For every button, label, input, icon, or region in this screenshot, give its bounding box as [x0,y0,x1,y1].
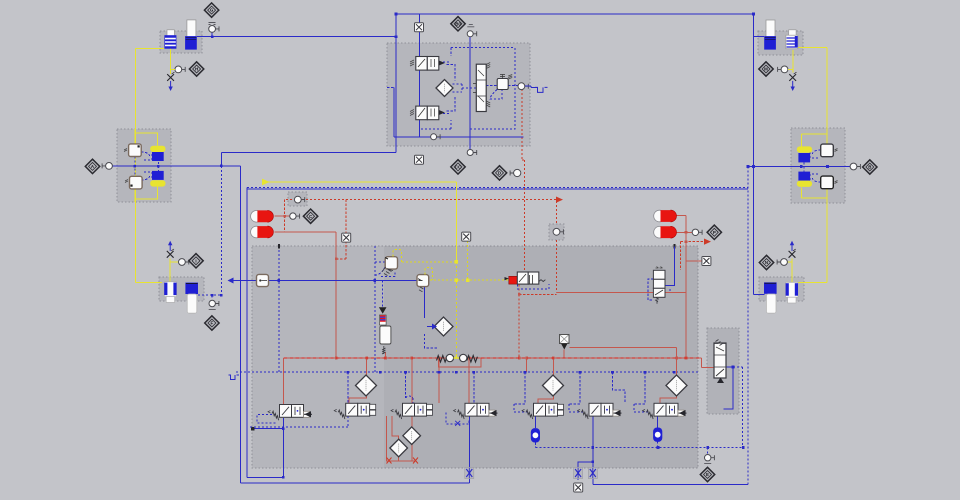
wire yellow vent riser P3 [169,259,171,283]
svg-text:N: N [765,260,768,265]
svg-text:P: P [713,230,716,235]
ball valve below V4 [531,428,540,442]
gauge D [510,169,521,176]
tick manifold top [278,244,280,249]
wire reg2 down [424,287,426,318]
dryer B1 [797,146,812,162]
regulator R2 [417,275,429,292]
junction [685,240,688,243]
gauge accR [692,229,702,235]
wire red d3 to V6 [660,393,677,403]
wire yellow center drop [455,182,457,262]
connector diamond I [189,254,203,268]
connector diamond B [863,160,877,174]
accumulator L2 [251,226,274,238]
wire P4 valve2 links [439,96,455,113]
wire V1 pilot loop [250,416,348,427]
junction [438,357,441,360]
wire V3 out [468,416,470,469]
wire long pilot bus upper [247,187,748,189]
svg-text:G: G [210,8,214,13]
wire red xbox branch dashed [336,200,346,259]
valve P4 bottom [410,106,445,120]
svg-text:I: I [195,258,196,263]
directional valve V2 [391,403,433,419]
regulator R2 yellow curl [425,268,433,281]
vent bottom-left [167,241,174,258]
svg-text:B0: B0 [455,21,461,26]
shuttle white diamond center [434,317,453,336]
junction [732,366,735,369]
wire inner left drop [246,188,248,478]
wire riser x396 [395,14,397,153]
check unit bypass [439,358,481,367]
wire reg1 left dashed [375,246,395,372]
junction [518,357,521,360]
wire inner bottom [247,476,283,478]
wire red accL riser dashed [284,200,286,232]
wire red v2 down [399,416,412,461]
svg-text:H: H [195,67,198,72]
gauge top-left [209,26,219,33]
filter right top [560,335,570,350]
vent bottom-right [789,241,796,258]
wire red solenoid feed dashed [522,89,525,272]
accumulator R2 [654,226,677,238]
junction [455,260,459,264]
regulator R1 [382,257,398,276]
wire P4 gauge link [525,86,538,87]
junction [826,165,829,168]
wire yellow center drop2 dashed [455,262,457,356]
group panel P2 unit A [117,129,171,202]
wire P4 below to CC [469,146,471,149]
junction [395,35,398,38]
wire manifold inner dashed [278,246,280,372]
wire red right pilot dashed [681,242,704,270]
cylinder receiver P1 right [185,20,197,50]
valve P4 top [410,57,445,71]
accumulator L1 [251,210,274,222]
wire red P10 link [702,358,714,367]
connector diamond B0 [451,17,465,31]
connector diamond J [759,62,773,76]
junction [525,357,528,360]
shuttle diamond P4 [436,80,453,97]
junction [675,357,678,360]
relief valve small [0,0,1,1]
wire V0 out [282,418,284,477]
right valve stack [653,267,665,304]
wire P4 dashed box [420,48,515,129]
wire yellow right vent drop [792,50,794,73]
regulator R1 yellow curl [393,250,402,262]
wire main top loop [396,13,754,15]
directional valve V4 [522,403,564,419]
connector diamond A [85,159,99,173]
wire red solenoid out dashed [519,285,556,359]
wire drain stub [211,295,213,299]
wire V5 pilot [569,372,585,412]
tank bracket P4 [535,87,548,92]
wire P4 shuttle links [453,84,477,92]
wire lubricator drop [382,281,384,308]
sequence valve P10 [714,340,727,384]
wire red v3 drop [468,358,470,403]
junction [592,446,595,449]
wire into P7 square [754,293,765,295]
lubricator [379,307,391,354]
plug cap V0 branch [251,427,255,431]
junction [468,357,471,360]
wire yellow left drop [134,49,136,283]
dryer A1 [150,146,165,161]
junction [685,357,688,360]
junction [282,427,285,430]
tick manifold top right [673,244,675,249]
junction [673,371,676,374]
junction [211,294,214,297]
vent top-right [789,72,796,91]
filter check box left [257,274,269,286]
cylinder receiver P5 left [764,20,776,50]
junction [644,371,647,374]
arrow into diamond [427,326,432,328]
wire red V0 drop [282,358,284,405]
directional valve V6 [643,403,687,419]
gauge top-left tbar [209,23,216,25]
throttle V5b [588,468,597,479]
junction [404,371,407,374]
junction [211,35,214,38]
wire J gauge link [788,68,793,70]
white diamond below V2 a [403,427,421,445]
wire left outer drop [239,166,241,483]
wire right B line [748,166,851,168]
wire yellow vent drop P1 [169,49,171,74]
wire P3 square link dashed [198,294,221,296]
wire P2 box1 curl [141,152,152,160]
wire red main supply [283,357,701,359]
wire yellow into P3 [135,282,162,284]
wire P6 yellow bottom [801,188,827,203]
wire V3 out2 [468,478,470,483]
wire yellow vent link P3 [170,261,178,263]
ball valve below V6 [653,428,662,442]
connector diamond CC [451,160,465,174]
gauge vent-left [175,66,185,73]
group panel P6 unit B [791,128,845,203]
pressure switch left [294,196,304,203]
gauge B0 [467,31,477,37]
junction [220,165,223,168]
connector diamond F [205,316,219,330]
wire red center run [557,292,687,294]
wire V3 pilot loop [446,412,469,424]
gauge P4 right [518,83,528,90]
wire red signal bus [286,199,558,201]
white diamond above V4 [543,375,564,396]
wire left A line [112,165,240,167]
junction [752,13,755,16]
connector diamond C [303,209,317,223]
valve pilot B1 [821,144,838,157]
group panel P4 top-center valve block [387,43,530,146]
wire reg2 diamond out [425,334,437,348]
junction [455,371,458,374]
red throttle a [387,458,392,464]
wire red acc1R [677,215,687,217]
wire filter arrow left [228,278,234,284]
wire P10 out [724,367,734,409]
wire E diamond drop [707,448,709,455]
wire long pilot bus upper2 [247,188,748,190]
junction [365,357,368,360]
xbox M [462,232,471,241]
wire V0 plug branch [253,428,284,430]
wire P4 mv right [486,85,518,87]
wire red stub 527 [526,358,528,372]
gauge bottom-right [777,259,787,266]
junction [747,165,750,168]
wire yellow right drop lower [826,197,828,282]
pressure switch center [553,228,563,235]
yellow supply arrow [262,179,270,186]
gauge CC [467,150,477,156]
wire P2 box2 curl [141,172,152,180]
wire right outer drop dashed [747,167,749,485]
cylinder accumulator P1 left [164,30,176,49]
check unit on supply line [437,354,478,362]
wire yellow supply arrow line [264,181,457,183]
wire red d1 to V1 [349,392,367,403]
wire V4 pilot [514,372,530,412]
xbox P4 bottom [415,155,424,164]
valve pilot A2 [125,176,142,189]
junction [611,371,614,374]
red signal arrow [556,197,563,203]
wire manifold pilot bus [236,371,698,373]
xbox P4 top [415,23,424,32]
gauge accL [290,213,300,219]
shuttle diamond D [492,166,506,180]
connector diamond H [189,62,203,76]
dryer A2 [150,171,165,187]
junction [466,278,470,282]
wire P2 yellow top [135,129,158,146]
wire filter out left [234,280,257,282]
wire yellow right drop upper [826,48,828,147]
wire red acc2R [677,231,693,233]
directional valve V5 [578,403,622,419]
junction [455,278,459,282]
wire red upper link [569,348,676,359]
wire supply flow dashes [284,357,701,359]
junction [384,357,387,360]
svg-text:D: D [498,171,501,176]
wire yellow into P7 [798,281,827,283]
wire red v2 curl [392,416,399,441]
junction [473,371,476,374]
connector diamond E [700,467,714,481]
junction [395,13,398,16]
tank bracket left [229,375,240,380]
group panel manifold right part [384,246,698,468]
valve pilot A1 [124,144,141,157]
junction [379,371,382,374]
junction [347,371,350,374]
drain gauge left [209,300,219,306]
wire V3 pilot x [455,421,460,426]
wire P4 center vert [469,37,471,146]
wire red d2 drop [552,358,554,378]
junction [579,371,582,374]
dryer B2 [797,172,812,187]
svg-text:E: E [706,472,709,477]
wire lower link bus dashed [535,447,743,449]
junction [282,476,285,479]
wire y152 link [221,152,396,154]
wire V0 pilot loop [257,415,277,424]
wire gauge stub top-left [211,32,213,37]
junction [278,279,281,282]
gauge unit B [850,163,860,170]
junction [423,279,426,282]
svg-text:CC: CC [455,165,462,170]
wire V5 out [578,416,593,469]
wire top-right cylinder stub [754,36,765,38]
accumulator R1 [654,210,677,222]
junction [742,446,745,449]
wire P6 box1 curl [810,150,821,158]
cylinder P3 left [164,282,176,303]
wire filter to reg [269,280,418,282]
wire P2 blue mid [134,157,136,177]
connector diamond K [759,255,773,269]
junction [685,231,688,234]
wire bottom left run [240,482,469,484]
gauge B0 tbar [467,25,474,27]
throttle V5a [574,468,583,479]
wire V5 throttle2 down [592,478,594,485]
red throttle b [413,458,418,464]
cylinder accumulator P5 right [786,30,798,49]
filter P7 left [764,282,777,313]
group panel P10 sequence valve [707,328,739,414]
junction [157,165,160,168]
wire red acc1L [275,215,285,217]
wire red d1 drop [366,358,368,379]
connector diamond G [204,3,218,17]
wire yellow M box drop dashed [467,241,469,280]
valve pilot B2 [821,176,838,189]
gauge unit A [102,163,112,170]
wire V1 feed [347,372,349,403]
junction [220,294,223,297]
throttle V3 out [465,468,474,479]
wire V6 pilot [634,372,650,412]
wire P2 blue right [157,162,159,171]
xbox below throttles [574,483,583,492]
wire red P12 drop dashed [556,201,558,293]
group panel pressure switch left [288,192,307,206]
wire red d2 to V4 [538,396,553,403]
wire red right xbox [686,260,702,262]
wire v5v6 bus [613,372,626,403]
junction [706,446,709,449]
junction [283,215,286,218]
relief P4 right [497,75,512,90]
wire red right drop [685,216,687,358]
drain tbar E [704,463,711,465]
red arrow right [704,239,711,245]
xbox accR [702,257,711,266]
wire red v2 loop [387,416,416,461]
directional valve V1 [334,403,376,419]
junction [800,165,803,168]
drain tbar left [209,309,216,311]
junction [518,293,521,296]
svg-text:M: M [764,67,768,72]
wire V5 throttle1 down [577,478,579,482]
wire V2 feed [406,372,414,403]
wire right valve pilot [648,279,671,300]
wire solenoid pilot loop [518,284,550,289]
junction [592,461,595,464]
wire red relief stub [385,352,387,358]
wire P10 loop dashed [733,367,743,448]
wire V4 out ball [534,416,536,428]
gauge bottom-left [179,259,189,266]
svg-text:F: F [211,321,214,326]
gauge vent-right [778,66,788,73]
group panel P7 bottom-right cylinders [759,277,804,301]
wire yellow vent link P1 [170,68,175,70]
white diamond above V6 [666,375,687,396]
wire top-left cylinder line [197,36,396,38]
junction [374,279,377,282]
junction [335,357,338,360]
wire P2 yellow bottom [135,186,158,202]
junction [752,165,755,168]
group panel pressure switch center [549,224,564,240]
svg-text:B: B [868,165,871,170]
wire P4 small pilot [490,90,502,100]
wire V6 ball down [657,441,659,447]
wire H gauge link [170,68,175,70]
wire P6 box2 curl [810,174,821,182]
wire P4 riser1 [419,14,421,57]
junction [552,357,555,360]
directional valve V0 [268,405,312,421]
wire P4 left entry [387,86,394,88]
wire V6 out ball [657,416,659,428]
wire bottom right run [593,484,748,486]
main valve P4 [473,63,490,112]
junction [657,446,660,449]
wire yellow reg2 link dashed [430,279,509,281]
white diamond below V2 b [390,439,408,457]
wire P4 left loop [394,87,523,137]
wire P6 yellow top [801,128,827,146]
wire yellow vent link P7 [786,261,792,263]
wire red left drop [335,232,337,358]
junction [411,357,414,360]
filter P3 right [185,283,198,314]
junction [134,165,137,168]
connector diamond P [707,225,721,239]
drain gauge E [705,455,715,461]
